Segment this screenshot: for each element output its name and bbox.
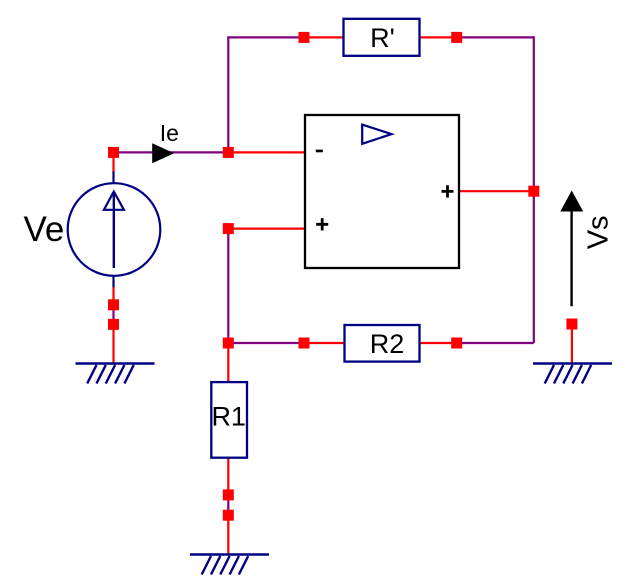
node: R1 bottom connector square upper [223, 489, 234, 500]
source Ve arrow open head [104, 192, 124, 210]
output arrow Vs head [560, 191, 583, 212]
svg-text:Ie: Ie [160, 120, 179, 146]
wire: purple Ie wire from Ve node to inverting node [114, 151, 229, 153]
node: R1 top corner junction square [223, 338, 234, 349]
current arrow Ie [152, 143, 174, 163]
wire: red R' right lead [420, 36, 457, 38]
wire: navy bottom lead stub of source Ve [112, 276, 114, 289]
wire: red from R1 corner node down to R1 top [227, 343, 229, 382]
node: R2 left lead square [299, 338, 310, 349]
source Ve arrow shaft [113, 192, 115, 268]
wire: red R' left lead [304, 36, 343, 38]
wire: purple segment between Ve bottom connector squares [112, 305, 114, 324]
source Ve circle [68, 183, 161, 276]
ground symbol right (under Vs) [533, 364, 612, 384]
op-amp U1 triangle symbol [362, 125, 391, 144]
ground symbol middle (under R1) [190, 555, 269, 575]
node: Vs bottom square [566, 319, 577, 330]
svg-text:Vs: Vs [582, 215, 614, 249]
svg-text:Ve: Ve [24, 210, 65, 249]
node: R2 right lead square [451, 338, 462, 349]
resistor R' box [344, 19, 420, 56]
node: Ve top junction square [108, 147, 119, 158]
node: R1 bottom connector square lower [223, 510, 234, 521]
wire: purple right vertical rail down to R2 row [533, 36, 535, 343]
op-amp pin label plus (output) [442, 185, 454, 197]
wire: red from inverting node to op-amp minus input [228, 151, 304, 153]
svg-text:R2: R2 [370, 329, 405, 359]
wire: red from source bottom to ground (upper part) [112, 287, 114, 305]
op-amp U1 box [305, 115, 459, 268]
resistor R1 box [211, 382, 247, 458]
node: output junction square on right rail [528, 186, 539, 197]
wire: purple top horizontal to R' left node [227, 36, 304, 38]
output arrow Vs shaft [570, 209, 572, 306]
node: non-inverting input junction square [223, 223, 234, 234]
wire: purple R2 row from right rail to R2 right node [457, 342, 534, 344]
wire: purple from R2 left node to R1 top corner node [228, 342, 304, 344]
wire: purple segment between R1 bottom connector squares [227, 495, 229, 515]
wire: red from R1 bottom down [227, 458, 229, 495]
wire: red from non-inverting node to op-amp plus input [228, 228, 304, 230]
wire: purple from R' right node to right rail corner [457, 36, 534, 38]
op-amp pin label plus (non-inverting) [316, 218, 328, 230]
svg-text:R': R' [370, 23, 395, 53]
node: Ve bottom connector square upper [108, 299, 119, 310]
wire: purple vertical from inverting node up to R' row [227, 37, 229, 152]
wire: red from Vs node down to right ground [571, 324, 573, 364]
node: R' right lead square [451, 32, 462, 43]
svg-text:R1: R1 [211, 401, 246, 431]
wire: red from R1 bottom connector to middle ground [227, 515, 229, 554]
wire: navy top lead stub of source Ve [112, 172, 114, 184]
op-amp pin label minus [316, 150, 323, 153]
wire: red from Ve bottom connector to left ground [112, 324, 114, 363]
wire: red from Ve node down to source top lead [112, 152, 114, 172]
resistor R2 box [345, 325, 420, 362]
node: inverting input junction square [223, 147, 234, 158]
node: Ve bottom connector square lower [108, 319, 119, 330]
wire: red op-amp output to right rail node [459, 190, 534, 192]
wire: red R2 left lead [304, 342, 344, 344]
wire: red R2 right lead [420, 342, 457, 344]
ground symbol left (under Ve) [76, 364, 155, 384]
wire: purple vertical from non-inverting node down to R1 corner [227, 229, 229, 345]
node: R' left lead square [299, 32, 310, 43]
